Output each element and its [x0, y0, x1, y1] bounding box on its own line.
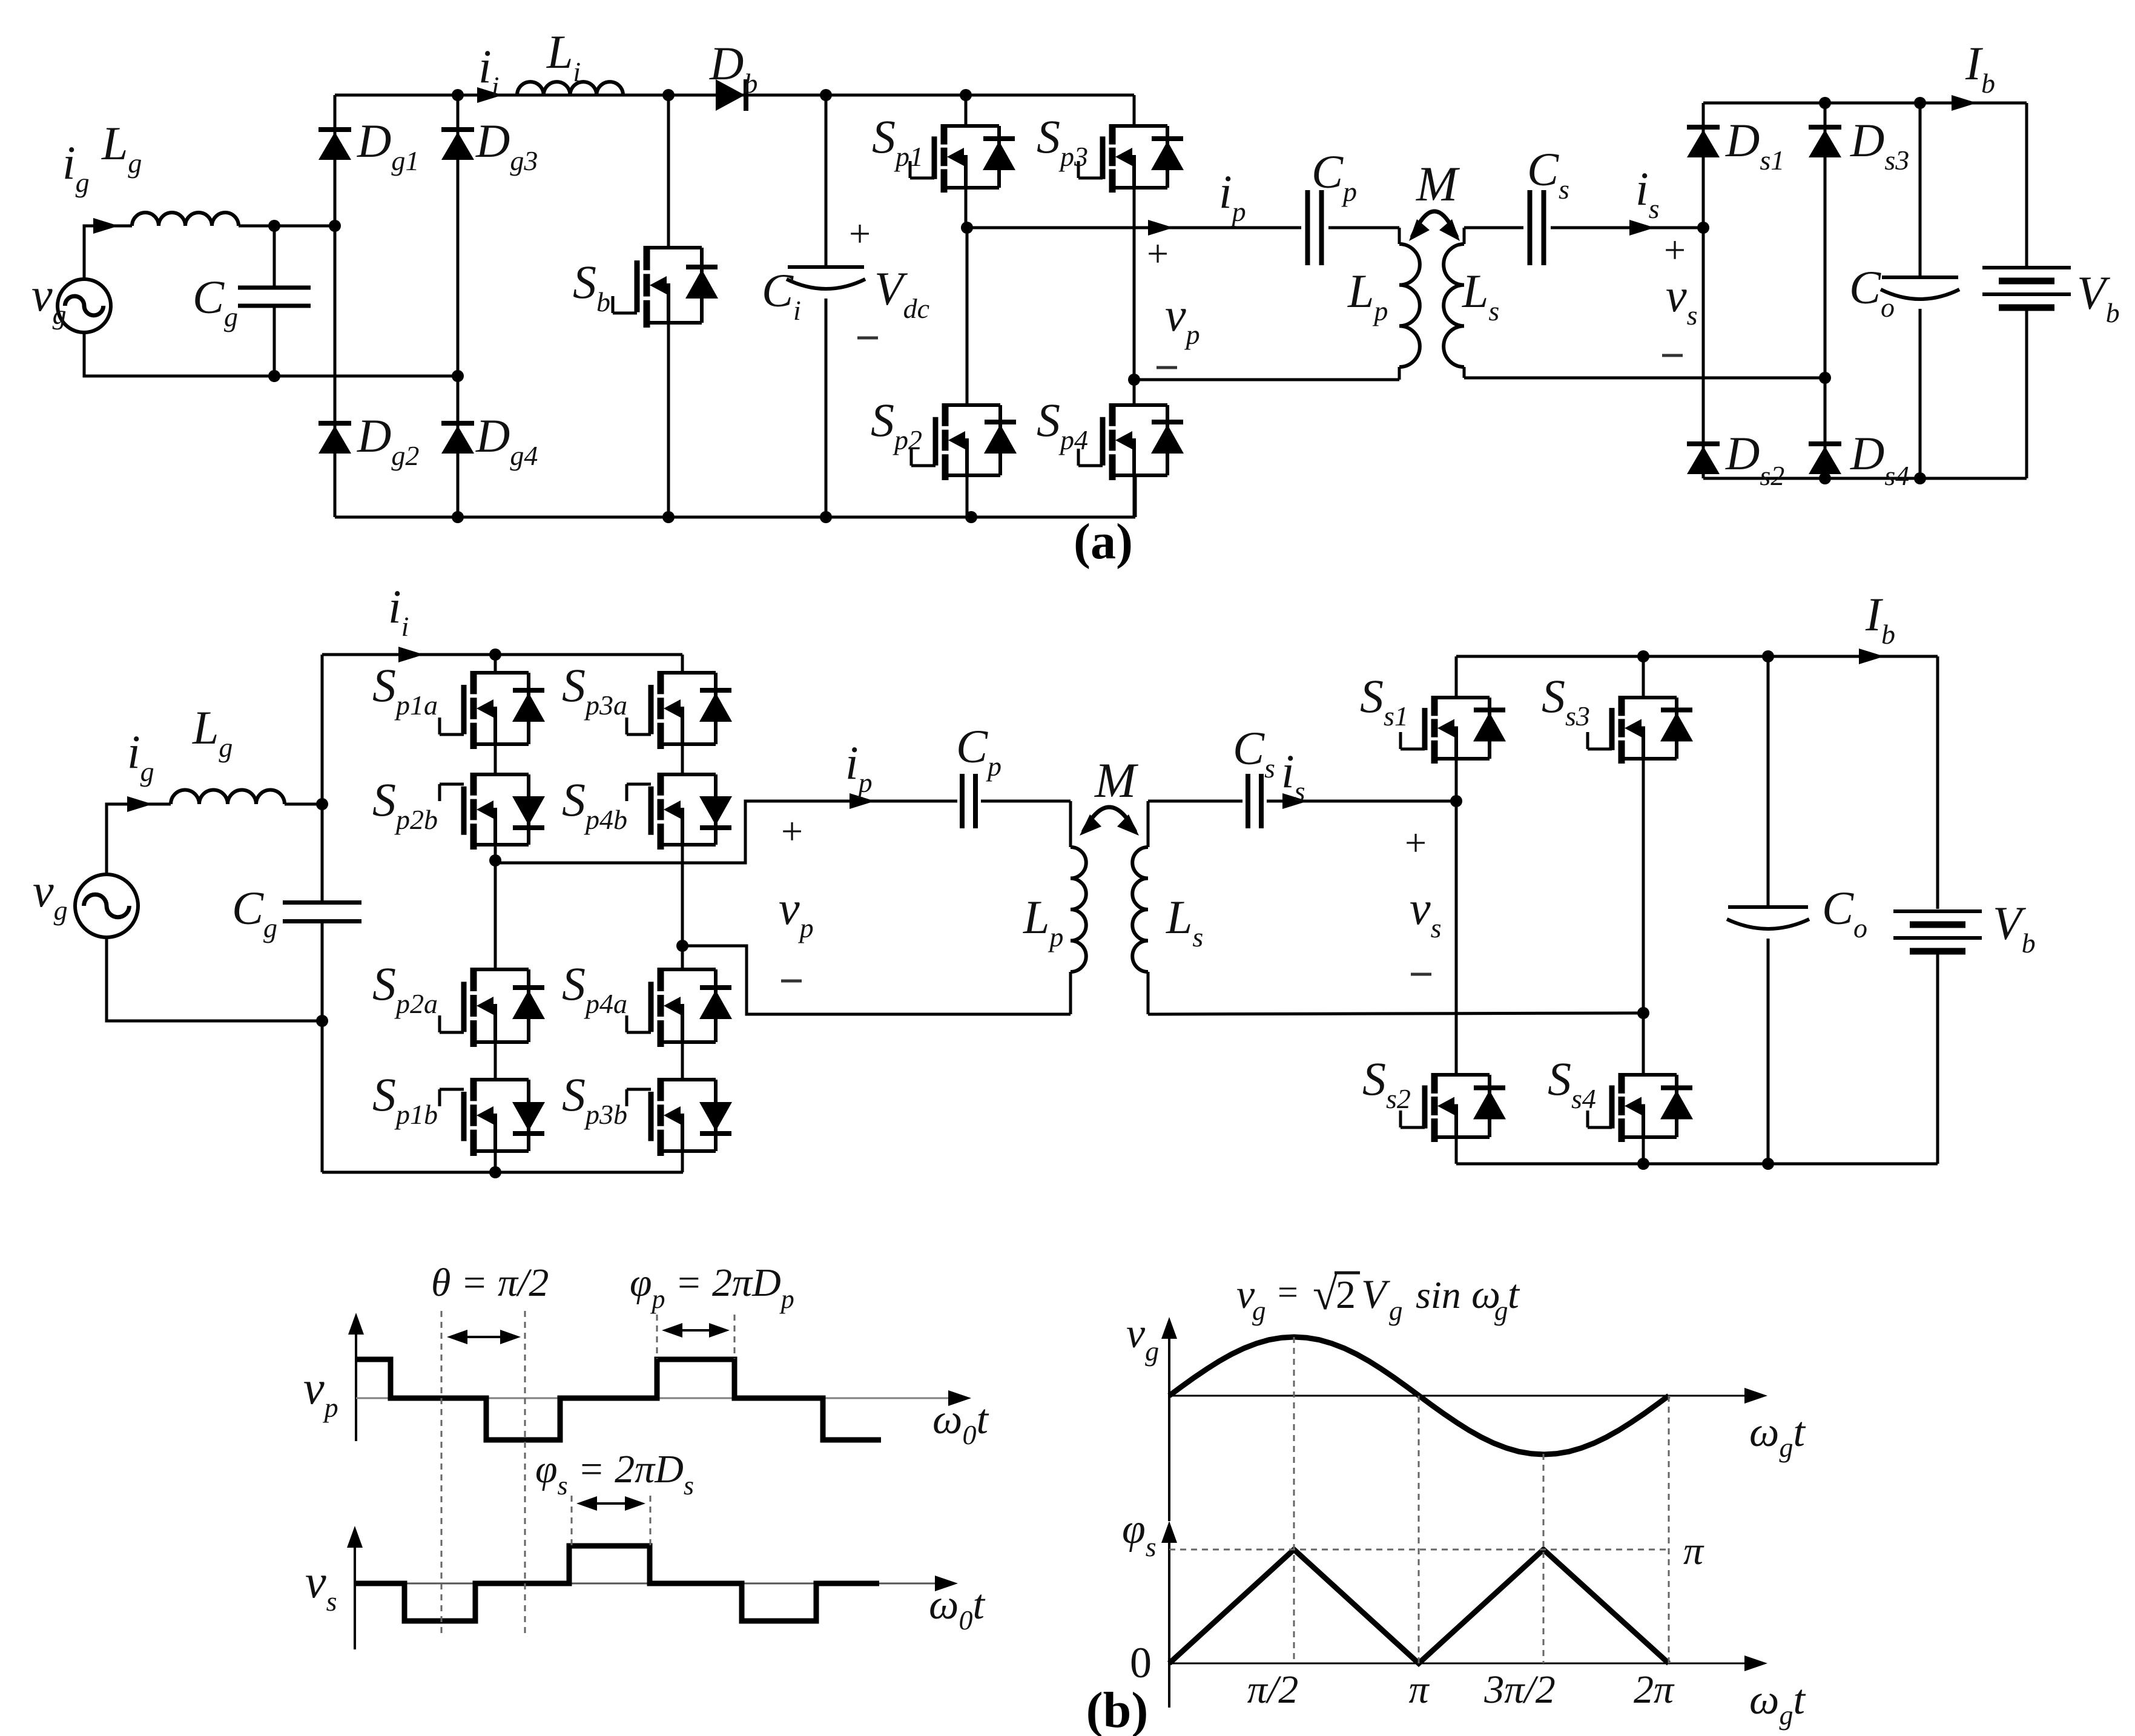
svg-text:ωgt: ωgt [1749, 1677, 1806, 1731]
svg-text:sin: sin [1416, 1273, 1461, 1316]
svg-text:0: 0 [1130, 1639, 1152, 1687]
svg-text:M: M [1416, 156, 1460, 211]
svg-text:+: + [1147, 232, 1169, 275]
svg-text:g: g [1389, 1296, 1403, 1326]
svg-text:ω0t: ω0t [929, 1582, 985, 1635]
svg-text:+: + [1405, 821, 1427, 864]
svg-text:ω0t: ω0t [932, 1396, 989, 1450]
svg-text:2: 2 [1336, 1273, 1356, 1317]
svg-text:g: g [1494, 1296, 1508, 1326]
svg-text:θ = π/2: θ = π/2 [431, 1261, 549, 1305]
svg-text:+: + [849, 212, 871, 255]
svg-text:M: M [1094, 753, 1139, 808]
svg-text:π/2: π/2 [1247, 1668, 1298, 1712]
svg-text:2π: 2π [1634, 1668, 1675, 1712]
svg-text:(a): (a) [1074, 513, 1133, 570]
svg-text:t: t [1508, 1271, 1520, 1317]
svg-text:g: g [1252, 1296, 1266, 1326]
svg-text:3π/2: 3π/2 [1483, 1668, 1555, 1712]
svg-text:+: + [1664, 228, 1686, 271]
svg-text:ωgt: ωgt [1749, 1409, 1806, 1463]
svg-text:=: = [1278, 1272, 1298, 1312]
svg-text:π: π [1683, 1529, 1704, 1573]
svg-text:√: √ [1313, 1270, 1338, 1319]
svg-text:π: π [1408, 1668, 1430, 1712]
svg-text:+: + [781, 810, 803, 853]
svg-text:(b): (b) [1086, 1682, 1149, 1736]
